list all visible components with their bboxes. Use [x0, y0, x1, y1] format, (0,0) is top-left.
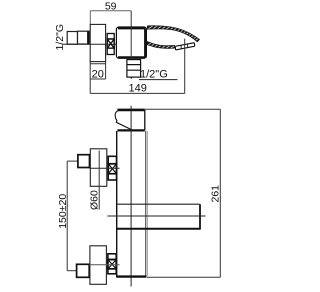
- extension line upper part: [130, 11, 132, 27]
- dimension 20 extension lines: [90, 61, 105, 93]
- upper valve top square: [108, 156, 116, 164]
- dimension 20 line: [90, 78, 105, 80]
- top box thick bottom edge: [117, 129, 144, 131]
- extension line to 261 bottom: [147, 276, 220, 278]
- upper valve X square: [108, 164, 116, 174]
- wall flange (side): [90, 24, 105, 61]
- body bottom thick edge: [117, 275, 147, 277]
- spout bar centerline: [107, 215, 205, 217]
- spout lower hatched band: [147, 42, 175, 49]
- inlet square 2: [78, 31, 90, 44]
- svg-text:1/2"G: 1/2"G: [140, 68, 168, 80]
- upper valve bottom square: [108, 174, 116, 180]
- Ø60 leader line: [98, 151, 100, 210]
- top box left bump and diagonal: [115, 111, 131, 129]
- dimension 59 line: [90, 10, 131, 12]
- body thick bottom edge: [118, 56, 145, 59]
- svg-text:149: 149: [129, 83, 147, 95]
- svg-text:20: 20: [92, 69, 104, 81]
- lower elbow extension: [67, 270, 76, 272]
- upper escutcheon: [90, 149, 107, 187]
- outlet fitting thread lines: [127, 65, 141, 71]
- extension line left (wall plane): [89, 11, 91, 25]
- upper valve X diagonals: [108, 164, 116, 174]
- valve column bottom square: [107, 48, 114, 54]
- outlet fitting below body: [127, 60, 141, 78]
- spout upper hatched band: [147, 26, 199, 42]
- spout bar bottom thick edge: [117, 228, 201, 230]
- aerator at spout tip: [175, 43, 195, 50]
- centerline through body: [130, 27, 132, 79]
- svg-text:Ø60: Ø60: [89, 190, 101, 210]
- upper inlet nut: [78, 155, 90, 168]
- body column right shadow: [146, 131, 148, 276]
- lower valve X diagonals: [108, 260, 116, 269]
- svg-text:150±20: 150±20: [57, 194, 69, 229]
- inlet square 2 thick right edge: [87, 31, 89, 44]
- upper inlet centerline: [90, 167, 120, 169]
- valve X diagonals: [107, 39, 114, 48]
- lower valve bottom square: [108, 269, 116, 274]
- lower inlet centerline: [90, 264, 120, 266]
- dimension 261 line: [219, 109, 221, 277]
- body column left edge: [116, 131, 118, 278]
- centerline vertical of front view: [130, 106, 132, 287]
- top box thick top edge: [117, 109, 144, 112]
- valve X square: [107, 39, 114, 48]
- upper elbow extension: [67, 160, 77, 162]
- top box right edge: [144, 110, 146, 131]
- spout bar right edge: [199, 204, 201, 229]
- lower valve top square: [108, 254, 116, 260]
- spout bar (front) top edge: [117, 203, 200, 205]
- valve X diagonals redraw: [107, 39, 114, 48]
- body (side view): [116, 27, 146, 58]
- inlet centerline: [62, 43, 121, 45]
- spout tip extension line down: [184, 39, 186, 94]
- svg-text:261: 261: [210, 185, 222, 203]
- body thick top edge: [118, 27, 145, 30]
- dimension 150±20 line: [66, 161, 68, 271]
- valve column top square: [107, 34, 114, 40]
- label underline: [139, 79, 178, 81]
- top tilted spout box fill: [117, 110, 144, 131]
- aerator inner tick: [181, 44, 188, 49]
- extension line to 261 top: [145, 108, 220, 110]
- lower valve X square: [108, 260, 116, 269]
- lower inlet nut: [77, 264, 90, 277]
- dimension 149 line: [90, 92, 185, 94]
- body column right edge: [145, 131, 147, 276]
- inlet square 1: [67, 32, 77, 45]
- body thick right edge: [144, 29, 147, 58]
- svg-text:1/2"G: 1/2"G: [54, 24, 66, 51]
- lower escutcheon: [90, 246, 107, 284]
